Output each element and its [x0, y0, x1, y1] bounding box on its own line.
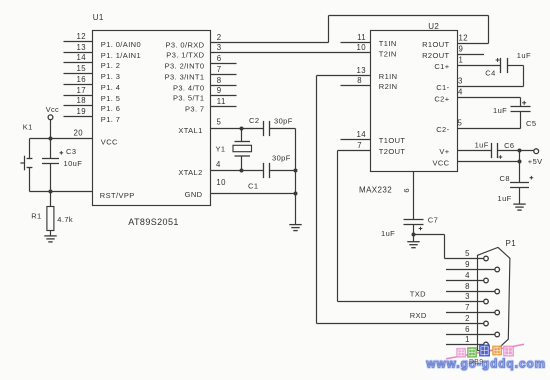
svg-text:C6: C6 — [504, 141, 514, 150]
svg-text:13: 13 — [357, 66, 366, 75]
svg-text:Y1: Y1 — [216, 145, 226, 154]
svg-text:18: 18 — [77, 96, 86, 105]
svg-text:1uF: 1uF — [381, 229, 395, 238]
svg-text:VCC: VCC — [432, 158, 449, 167]
svg-text:C5: C5 — [526, 119, 536, 128]
svg-text:14: 14 — [77, 53, 87, 62]
svg-text:P1. 0/AIN0: P1. 0/AIN0 — [101, 40, 141, 49]
svg-text:9: 9 — [217, 86, 222, 95]
svg-text:11: 11 — [357, 33, 366, 42]
svg-text:P1. 6: P1. 6 — [101, 104, 121, 113]
svg-text:C4: C4 — [485, 68, 495, 77]
svg-text:12: 12 — [77, 32, 86, 41]
svg-text:P3. 5/T1: P3. 5/T1 — [173, 93, 205, 102]
svg-text:30pF: 30pF — [274, 116, 293, 125]
svg-text:10uF: 10uF — [64, 159, 83, 168]
svg-text:VCC: VCC — [101, 138, 118, 147]
svg-text:1uF: 1uF — [498, 194, 512, 203]
svg-text:P3. 0/RXD: P3. 0/RXD — [165, 40, 204, 49]
svg-text:P3. 4/T0: P3. 4/T0 — [173, 83, 205, 92]
svg-text:T2OUT: T2OUT — [379, 147, 406, 156]
svg-text:2: 2 — [465, 314, 470, 323]
svg-text:C7: C7 — [428, 216, 438, 225]
svg-text:9: 9 — [459, 45, 464, 54]
svg-text:14: 14 — [357, 130, 367, 139]
svg-text:P3. 2/INT0: P3. 2/INT0 — [165, 61, 205, 70]
svg-text:P1. 3: P1. 3 — [101, 72, 121, 81]
svg-text:7: 7 — [465, 303, 470, 312]
svg-text:4.7k: 4.7k — [57, 215, 73, 224]
svg-text:P1: P1 — [506, 239, 517, 248]
svg-text:C1: C1 — [248, 182, 258, 191]
svg-text:8: 8 — [217, 76, 222, 85]
svg-text:C1+: C1+ — [434, 62, 449, 71]
svg-text:V+: V+ — [439, 147, 449, 156]
svg-text:Vcc: Vcc — [46, 105, 59, 114]
svg-text:T2IN: T2IN — [379, 49, 397, 58]
svg-text:1: 1 — [459, 56, 464, 65]
svg-text:P1. 4: P1. 4 — [101, 83, 121, 92]
svg-text:U1: U1 — [93, 13, 104, 22]
svg-text:1uF: 1uF — [475, 141, 489, 150]
svg-text:P1. 5: P1. 5 — [101, 94, 121, 103]
svg-text:5: 5 — [458, 119, 463, 128]
svg-text:3: 3 — [465, 292, 470, 301]
svg-text:P3. 1/TXD: P3. 1/TXD — [166, 50, 204, 59]
svg-text:C1-: C1- — [436, 83, 449, 92]
svg-text:4: 4 — [465, 271, 470, 280]
svg-text:12: 12 — [459, 34, 468, 43]
svg-text:U2: U2 — [428, 22, 439, 31]
svg-text:P3. 3/INT1: P3. 3/INT1 — [165, 72, 205, 81]
svg-text:R2IN: R2IN — [379, 82, 398, 91]
svg-text:5: 5 — [217, 118, 222, 127]
svg-text:MAX232: MAX232 — [359, 186, 392, 195]
svg-text:2: 2 — [217, 33, 222, 42]
svg-text:R1IN: R1IN — [379, 72, 398, 81]
svg-text:17: 17 — [77, 86, 86, 95]
svg-text:7: 7 — [357, 141, 362, 150]
svg-text:www.go-gddq.com: www.go-gddq.com — [426, 358, 547, 370]
svg-text:1uF: 1uF — [493, 106, 507, 115]
svg-text:15: 15 — [77, 64, 87, 73]
svg-text:6: 6 — [217, 54, 222, 63]
svg-text:RXD: RXD — [410, 311, 427, 320]
svg-text:3: 3 — [458, 77, 463, 86]
svg-text:XTAL2: XTAL2 — [178, 168, 202, 177]
svg-text:9: 9 — [465, 260, 470, 269]
svg-text:AT89S2051: AT89S2051 — [128, 217, 178, 227]
svg-text:11: 11 — [217, 97, 226, 106]
svg-text:7: 7 — [217, 65, 222, 74]
svg-text:13: 13 — [77, 43, 86, 52]
svg-text:P1. 2: P1. 2 — [101, 61, 121, 70]
svg-text:P1. 7: P1. 7 — [101, 115, 121, 124]
svg-text:6: 6 — [402, 188, 411, 192]
svg-text:DB9: DB9 — [469, 358, 483, 365]
svg-text:+5V: +5V — [528, 157, 543, 166]
svg-text:R1OUT: R1OUT — [422, 40, 449, 49]
svg-text:3: 3 — [217, 43, 222, 52]
svg-text:1: 1 — [465, 335, 470, 344]
svg-text:5: 5 — [465, 249, 470, 258]
svg-text:6: 6 — [465, 325, 470, 334]
svg-text:C2-: C2- — [436, 125, 449, 134]
svg-text:T1OUT: T1OUT — [379, 136, 406, 145]
svg-text:10: 10 — [216, 178, 226, 187]
svg-text:K1: K1 — [23, 122, 33, 131]
svg-text:30pF: 30pF — [272, 153, 291, 162]
svg-text:20: 20 — [74, 129, 84, 138]
svg-text:TXD: TXD — [410, 290, 426, 299]
svg-text:R2OUT: R2OUT — [422, 51, 449, 60]
svg-text:4: 4 — [458, 88, 463, 97]
svg-text:C3: C3 — [66, 147, 76, 156]
svg-text:10: 10 — [357, 43, 367, 52]
svg-text:R1: R1 — [31, 212, 41, 221]
svg-text:P3. 7: P3. 7 — [185, 104, 205, 113]
svg-text:XTAL1: XTAL1 — [178, 126, 202, 135]
svg-text:C2: C2 — [249, 116, 259, 125]
svg-text:8: 8 — [465, 282, 470, 291]
svg-text:4: 4 — [216, 160, 221, 169]
svg-text:1uF: 1uF — [517, 51, 531, 60]
svg-text:RST/VPP: RST/VPP — [100, 191, 135, 200]
svg-text:GND: GND — [185, 190, 203, 199]
svg-text:T1IN: T1IN — [379, 39, 397, 48]
svg-text:19: 19 — [77, 107, 86, 116]
svg-text:C8: C8 — [500, 174, 510, 183]
svg-text:8: 8 — [357, 76, 362, 85]
svg-text:P1. 1/AIN1: P1. 1/AIN1 — [101, 51, 141, 60]
svg-text:C2+: C2+ — [434, 95, 449, 104]
svg-text:16: 16 — [77, 75, 86, 84]
